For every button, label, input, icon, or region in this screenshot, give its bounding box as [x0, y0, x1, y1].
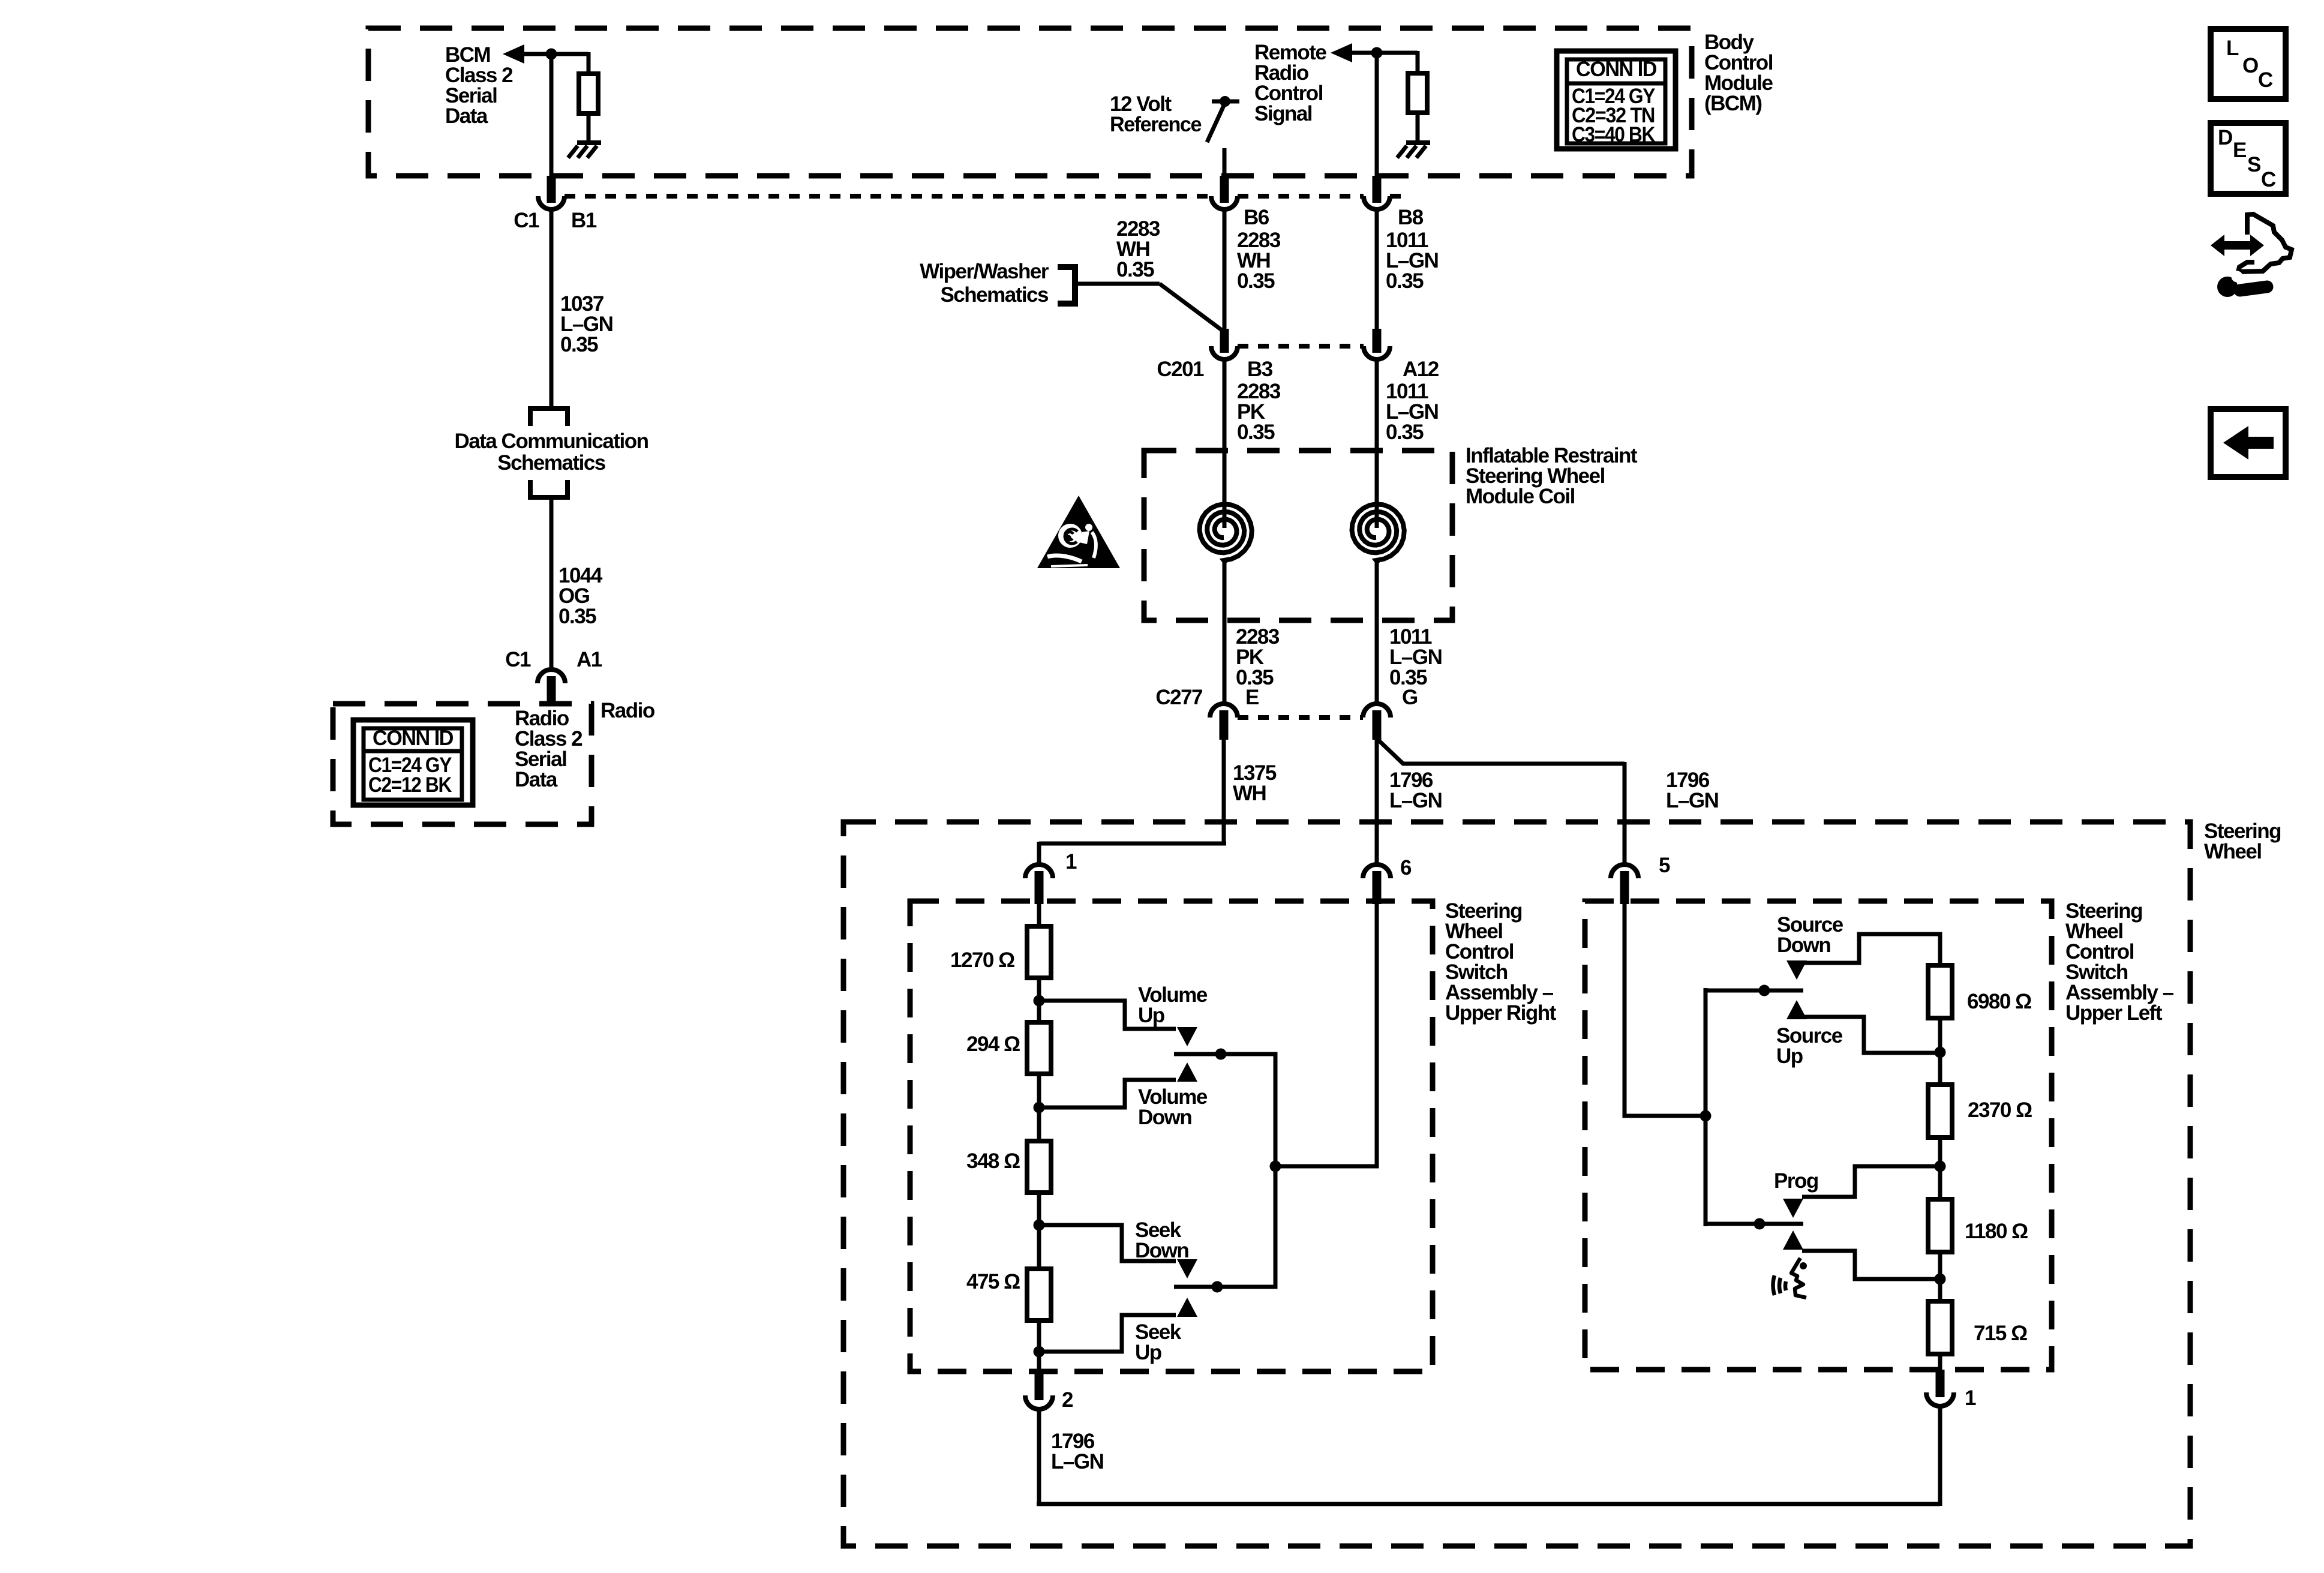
node: BCM Class 2 Serial Data (off-page arrow)	[445, 43, 588, 128]
wire 1011 L-GN: B8 to C201 A12	[1375, 209, 1379, 334]
junction at BCM serial data	[546, 49, 557, 60]
junction node (switch output)	[1270, 1161, 1281, 1172]
wire: branch to resistor R2	[1416, 51, 1420, 75]
switch SW-Prog branch wire	[1802, 1166, 1940, 1197]
svg-text:Reference: Reference	[1110, 113, 1202, 136]
svg-text:6980 Ω: 6980 Ω	[1967, 990, 2031, 1013]
junction on seek common	[1212, 1281, 1223, 1293]
wire into right coil	[1375, 359, 1379, 528]
connector C201 B3 pin	[1211, 329, 1238, 359]
label Volume Down	[1138, 1085, 1208, 1129]
icon: diagnostic direction symbol (arrow, fender, wrench)	[2211, 214, 2292, 297]
wire label 1796 L-GN (pin 6)	[1389, 769, 1442, 812]
svg-text:C2=12 BK: C2=12 BK	[368, 773, 452, 797]
svg-text:C1: C1	[514, 209, 539, 232]
wire: left coil to C277 E	[1223, 559, 1227, 705]
junction node V2	[1034, 1102, 1045, 1113]
svg-text:1: 1	[1965, 1386, 1976, 1410]
svg-text:Up: Up	[1135, 1341, 1161, 1364]
svg-text:5: 5	[1659, 854, 1670, 877]
svg-text:Radio: Radio	[600, 699, 655, 722]
switch SW-SeekDown branch wire	[1039, 1225, 1176, 1261]
wire 1796 L-GN: G to steering wheel pin 6	[1375, 739, 1379, 866]
wire label 2283 PK 0.35	[1237, 380, 1281, 444]
module box: Steering Wheel (dashed)	[843, 822, 2190, 1546]
wire: R1 to ground	[587, 113, 591, 143]
svg-text:Schematics: Schematics	[940, 283, 1049, 307]
connector C201 row (dotted)	[1238, 344, 1364, 349]
svg-text:0.35: 0.35	[1237, 269, 1275, 293]
svg-text:Up: Up	[1776, 1044, 1803, 1068]
wire: 12V ref to connector B6	[1223, 148, 1227, 180]
module box: Radio (dashed)	[333, 704, 591, 824]
svg-text:Upper Left: Upper Left	[2065, 1001, 2163, 1025]
wire label 1796 L-GN (bottom)	[1051, 1430, 1103, 1473]
svg-text:Data: Data	[445, 104, 488, 128]
svg-text:B6: B6	[1244, 206, 1269, 229]
connector pin 5 (steering wheel)	[1611, 864, 1638, 904]
wire: pin 5 into assembly	[1625, 903, 1706, 1116]
switch SW-Prog contact arrow	[1783, 1199, 1803, 1218]
junction on source common	[1759, 985, 1770, 996]
wire: right coil to C277 G	[1375, 559, 1379, 705]
icon: LOC reference box	[2211, 29, 2286, 99]
label: Body Control Module (BCM)	[1704, 31, 1773, 115]
switch SW-VolumeDown contact arrow	[1177, 1062, 1197, 1082]
volume switch common contact	[1174, 1052, 1217, 1056]
svg-text:C: C	[2261, 168, 2276, 191]
switch SW-Voice branch wire	[1802, 1251, 1940, 1279]
junction on prog common	[1754, 1218, 1765, 1230]
wire: switch common bus	[1704, 988, 1708, 1226]
label Volume Up	[1138, 983, 1208, 1027]
switch SW-SourceDown contact arrow	[1786, 960, 1807, 980]
node: Remote Radio Control Signal (off-page arrow)	[1254, 41, 1418, 125]
module box: Inflatable Restraint Steering Wheel Module Coil (dashed)	[1144, 451, 1452, 620]
junction below R8	[1935, 1161, 1946, 1172]
label Seek Down	[1135, 1218, 1188, 1262]
connector C201 A12 pin	[1364, 329, 1390, 359]
svg-text:S: S	[2247, 153, 2260, 176]
resistor R6 475 ohm	[1027, 1269, 1051, 1320]
wire 1037 L-GN: C1/B1 to Data Communication	[550, 209, 554, 409]
svg-text:CONN ID: CONN ID	[373, 727, 453, 750]
connector pin 2 (upper right assembly)	[1025, 1371, 1053, 1409]
wire: R10 to pin 1	[1938, 1354, 1942, 1370]
label Seek Up	[1135, 1320, 1182, 1364]
wire: R3 to R4	[1037, 978, 1041, 1025]
wire: remote radio column (B8)	[1375, 53, 1379, 180]
svg-text:0.35: 0.35	[1237, 421, 1275, 444]
svg-text:L: L	[2226, 37, 2239, 60]
connector C1/A1 pin (radio)	[538, 670, 565, 705]
CONN ID table (BCM): C1=24 GY, C2=32 TN, C3=40 BK	[1557, 51, 1676, 149]
svg-text:0.35: 0.35	[559, 605, 596, 628]
voice recognition icon	[1773, 1258, 1807, 1298]
svg-text:Down: Down	[1138, 1106, 1191, 1129]
switch SW-VolumeUp contact arrow	[1177, 1027, 1197, 1046]
switch SW-SeekUp branch wire	[1039, 1315, 1176, 1352]
svg-text:L–GN: L–GN	[1389, 789, 1442, 812]
svg-text:D: D	[2218, 126, 2232, 149]
seek switch common contact	[1174, 1285, 1214, 1289]
label Source Up	[1776, 1024, 1843, 1068]
junction below R7	[1935, 1047, 1946, 1058]
wire: switch output to pin 6	[1275, 903, 1377, 1166]
wire label 1011 L-GN 0.35 (B8)	[1386, 229, 1438, 293]
svg-text:C201: C201	[1157, 358, 1204, 381]
module box: Steering Wheel Control Switch Assembly - Upper Right (dashed)	[910, 901, 1433, 1371]
connector C277 G pin	[1363, 704, 1391, 740]
svg-text:C: C	[2258, 68, 2273, 92]
wire: R7 to R8	[1938, 1018, 1942, 1087]
svg-text:B3: B3	[1247, 358, 1273, 381]
svg-text:715 Ω: 715 Ω	[1974, 1322, 2027, 1345]
connector B6 pin (BCM)	[1211, 176, 1238, 209]
resistor R10 715 ohm	[1928, 1301, 1952, 1354]
icon: DESC reference box	[2211, 123, 2286, 194]
junction on switch feed	[1700, 1110, 1712, 1122]
connector B8 pin (BCM)	[1364, 176, 1390, 209]
SRS warning triangle (airbag caution)	[1037, 496, 1120, 568]
wire label 1037 L-GN 0.35	[560, 292, 612, 356]
connector C277 row (dotted)	[1238, 715, 1363, 720]
wire label 1375 WH	[1233, 761, 1277, 805]
switch SW-SeekDown contact arrow	[1177, 1259, 1197, 1278]
wire label 1011 L-GN 0.35	[1386, 380, 1438, 444]
connector pin 1 (steering wheel)	[1025, 864, 1053, 904]
wire: R4 to R5	[1037, 1074, 1041, 1143]
svg-text:L–GN: L–GN	[1051, 1450, 1103, 1473]
svg-text:B8: B8	[1398, 206, 1424, 229]
resistor R9 1180 ohm	[1928, 1199, 1952, 1252]
svg-text:348 Ω: 348 Ω	[966, 1149, 1020, 1173]
wire: pin 1 to resistor chain	[1037, 903, 1041, 929]
resistor R3 1270 ohm	[1027, 926, 1051, 978]
label: Radio Class 2 Serial Data	[515, 707, 582, 791]
junction node S2	[1034, 1346, 1045, 1358]
off-page reference: Data Communication Schematics	[454, 406, 648, 500]
svg-text:C1: C1	[505, 648, 531, 671]
svg-text:Down: Down	[1777, 933, 1830, 957]
junction at remote radio signal	[1371, 47, 1383, 59]
svg-text:Prog: Prog	[1774, 1169, 1818, 1193]
svg-text:1: 1	[1065, 850, 1077, 873]
connector C1/B1 pin (BCM)	[538, 176, 565, 209]
coil L1 (SIR coil, radio signal)	[1200, 504, 1252, 563]
wire: R2 to ground	[1416, 113, 1420, 143]
junction below R9	[1935, 1274, 1946, 1285]
svg-text:294 Ω: 294 Ω	[966, 1032, 1020, 1056]
switch SW-SourceUp contact arrow	[1786, 1000, 1807, 1019]
svg-text:Module Coil: Module Coil	[1466, 485, 1575, 508]
wire: wiper/washer to B3 (2283 WH)	[1074, 284, 1226, 333]
switch SW-VolumeUp branch wire	[1039, 1001, 1176, 1029]
connector pin 6 (steering wheel)	[1363, 864, 1391, 904]
switch SW-SeekUp contact arrow	[1177, 1298, 1197, 1317]
svg-text:WH: WH	[1233, 782, 1266, 805]
svg-text:Wiper/Washer: Wiper/Washer	[920, 260, 1049, 283]
svg-text:475 Ω: 475 Ω	[966, 1270, 1020, 1293]
svg-text:C3=40 BK: C3=40 BK	[1572, 123, 1655, 146]
svg-text:0.35: 0.35	[1116, 258, 1154, 281]
wire label 1044 OG 0.35	[559, 564, 603, 628]
svg-text:Down: Down	[1135, 1239, 1188, 1262]
ground G1 (chassis)	[568, 143, 601, 158]
junction on volume common	[1215, 1049, 1227, 1060]
svg-text:Schematics: Schematics	[497, 451, 606, 475]
svg-text:L–GN: L–GN	[1666, 789, 1718, 812]
module box: Steering Wheel Control Switch Assembly - Upper Left (dashed)	[1585, 901, 2052, 1370]
switch SW-SourceUp branch wire	[1804, 1017, 1940, 1053]
svg-text:0.35: 0.35	[560, 333, 598, 356]
wire label 1796 L-GN (pin 5)	[1666, 769, 1718, 812]
svg-text:Up: Up	[1138, 1004, 1164, 1027]
wire: seek common to node	[1217, 1166, 1275, 1287]
svg-text:Data: Data	[515, 768, 558, 791]
switch S1: 12 Volt Reference contact	[1110, 92, 1239, 142]
svg-text:A12: A12	[1403, 358, 1439, 381]
resistor R5 348 ohm	[1027, 1141, 1051, 1193]
svg-text:2: 2	[1062, 1388, 1073, 1412]
ground G2 (chassis)	[1397, 143, 1430, 158]
svg-text:C277: C277	[1155, 686, 1202, 709]
switch SW-Voice contact arrow	[1783, 1230, 1803, 1250]
resistor R4 294 ohm	[1027, 1022, 1051, 1074]
wire: R9 to R10	[1938, 1252, 1942, 1304]
svg-text:O: O	[2242, 54, 2258, 77]
CONN ID table (radio): C1=24 GY, C2=12 BK	[353, 720, 473, 805]
svg-text:1270 Ω: 1270 Ω	[950, 948, 1014, 972]
harness connector row (dotted)	[565, 194, 1406, 199]
wire 1044 OG: Data Communication to radio A1	[550, 497, 554, 671]
svg-text:Data Communication: Data Communication	[454, 430, 648, 453]
wire 1796 L-GN branch: G to pin 5	[1378, 740, 1625, 866]
svg-text:G: G	[1402, 686, 1418, 709]
label: Steering Wheel Control Switch Assembly - Upper Right	[1445, 899, 1557, 1025]
svg-text:0.35: 0.35	[1386, 269, 1424, 293]
svg-text:2370 Ω: 2370 Ω	[1968, 1098, 2032, 1122]
label Source Down	[1777, 913, 1843, 957]
resistor R8 2370 ohm	[1928, 1085, 1952, 1137]
svg-text:E: E	[1245, 686, 1259, 709]
wire label 2283 WH 0.35 (B6)	[1237, 229, 1281, 293]
svg-text:E: E	[2233, 139, 2246, 162]
junction node S1	[1034, 1220, 1045, 1231]
svg-text:Wheel: Wheel	[2204, 840, 2262, 863]
wire: R6 to pin 2	[1037, 1320, 1041, 1371]
wire: R8 to R9	[1938, 1137, 1942, 1202]
connector pin 1 (upper left assembly)	[1926, 1370, 1954, 1406]
wire: volume common to node	[1221, 1054, 1275, 1169]
off-page reference: Wiper/Washer Schematics	[920, 260, 1075, 307]
svg-text:6: 6	[1400, 856, 1412, 879]
wire: serial data branch to resistor	[587, 52, 591, 76]
switch SW-VolumeDown branch wire	[1039, 1080, 1176, 1107]
wire into left coil	[1223, 359, 1227, 528]
svg-text:CONN ID: CONN ID	[1576, 58, 1656, 81]
label: Inflatable Restraint Steering Wheel Module Coil	[1466, 444, 1638, 508]
svg-text:(BCM): (BCM)	[1704, 92, 1762, 115]
prog switch common contact	[1706, 1222, 1803, 1226]
svg-text:1180 Ω: 1180 Ω	[1965, 1220, 2028, 1243]
wire 1796 L-GN: pin 2 to pin 1 (bottom run)	[1037, 1405, 1940, 1506]
svg-text:A1: A1	[577, 648, 602, 671]
coil L2 (SIR coil, 12V ref)	[1352, 504, 1404, 563]
icon: back arrow box	[2211, 409, 2286, 477]
label: Steering Wheel Control Switch Assembly - Upper Left	[2065, 899, 2174, 1025]
label: Steering Wheel	[2204, 819, 2281, 863]
wire 1375 WH: E to steering wheel pin 1	[1039, 739, 1226, 866]
resistor R1 (BCM internal)	[579, 74, 598, 113]
wire label 1011 L-GN 0.35 (below coil)	[1389, 625, 1442, 689]
source switch common contact	[1706, 989, 1803, 993]
wire: BCM serial data column (C1-B1)	[550, 54, 554, 180]
module box U1: Body Control Module (dashed)	[368, 28, 1692, 176]
resistor R2 (BCM internal)	[1408, 73, 1427, 113]
junction node V1	[1034, 995, 1045, 1007]
svg-text:Upper Right: Upper Right	[1445, 1001, 1557, 1025]
wire label 2283 WH 0.35 (wiper)	[1116, 217, 1160, 281]
svg-text:B1: B1	[571, 209, 597, 232]
svg-text:0.35: 0.35	[1386, 421, 1424, 444]
switch SW-SourceDown branch wire	[1804, 934, 1940, 968]
connector C277 E pin	[1210, 704, 1238, 740]
wire label 2283 PK 0.35 (below coil)	[1236, 625, 1280, 689]
svg-text:Signal: Signal	[1254, 102, 1312, 125]
wire 2283 WH: B6 to C201 B3	[1223, 209, 1227, 334]
resistor R7 6980 ohm	[1928, 965, 1952, 1018]
wire: R5 to R6	[1037, 1193, 1041, 1271]
